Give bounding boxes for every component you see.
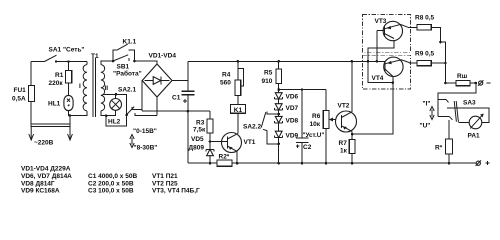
relay contact K1.1 bbox=[113, 39, 137, 62]
svg-text:VD8 Д814Г: VD8 Д814Г bbox=[21, 180, 55, 187]
transformer T1 primary winding I bbox=[69, 53, 99, 117]
svg-text:SA1 "Сеть": SA1 "Сеть" bbox=[49, 47, 85, 54]
meter mode legend I / U with double arrow bbox=[420, 101, 435, 130]
svg-text:HL2: HL2 bbox=[108, 119, 121, 126]
svg-text:VT1 П21: VT1 П21 bbox=[152, 173, 178, 180]
switch SA3 bbox=[447, 100, 476, 122]
resistor R2* inline bbox=[217, 154, 232, 167]
wire: mains left vertical from SA1 down to plug bbox=[30, 62, 32, 128]
multiplier resistor R* bbox=[435, 120, 452, 163]
svg-text:VD9 КС168А: VD9 КС168А bbox=[21, 188, 60, 195]
svg-text:SA2.2: SA2.2 bbox=[243, 124, 261, 131]
neon lamp HL1 bbox=[48, 95, 73, 115]
transformer T1 core bbox=[93, 58, 95, 118]
svg-text:VD6: VD6 bbox=[286, 94, 299, 101]
svg-text:R8 0,5: R8 0,5 bbox=[415, 15, 435, 22]
svg-text:560: 560 bbox=[220, 80, 231, 87]
svg-text:7,5к: 7,5к bbox=[193, 127, 206, 134]
capacitor C2 bbox=[296, 90, 312, 164]
resistor R3 bbox=[193, 111, 213, 143]
dashed box VT3 bbox=[363, 15, 411, 53]
switch SA1 "Сеть" bbox=[31, 47, 87, 63]
svg-text:SA3: SA3 bbox=[463, 100, 476, 107]
svg-text:R3: R3 bbox=[196, 120, 205, 127]
svg-text:"I": "I" bbox=[423, 101, 431, 108]
svg-text:R2*: R2* bbox=[219, 154, 230, 161]
svg-text:С2 200,0 х 50В: С2 200,0 х 50В bbox=[88, 180, 134, 187]
svg-text:SA2.1: SA2.1 bbox=[118, 87, 136, 94]
svg-text:VT2: VT2 bbox=[338, 103, 350, 110]
svg-text:VT2 П25: VT2 П25 bbox=[152, 180, 178, 187]
wire: reference node to R6 top bbox=[279, 88, 326, 91]
zener diode VD5 Д809 bbox=[189, 136, 215, 163]
svg-text:Rш: Rш bbox=[457, 73, 467, 80]
wire: bridge left vertex down to SA2.1 bbox=[141, 81, 143, 112]
svg-text:VT3: VT3 bbox=[375, 18, 387, 25]
svg-text:VD1-VD4 Д229А: VD1-VD4 Д229А bbox=[21, 166, 71, 173]
svg-text:"0-15В": "0-15В" bbox=[133, 128, 157, 135]
resistor R8 0,5 bbox=[415, 15, 445, 84]
wire: VT2 emitter output line to VT3/VT4 collectors bbox=[352, 39, 394, 135]
svg-text:II: II bbox=[105, 85, 109, 92]
svg-text:VT3, VT4 П4Б,Г: VT3, VT4 П4Б,Г bbox=[152, 188, 200, 195]
transformer T1 secondary winding II bbox=[101, 61, 116, 116]
svg-text:VD7: VD7 bbox=[286, 105, 299, 112]
meter PA1 bbox=[458, 114, 483, 140]
wire: base tie line VT3 to rail bbox=[376, 31, 378, 62]
svg-text:K1: K1 bbox=[234, 107, 243, 114]
svg-text:Д809: Д809 bbox=[189, 145, 205, 152]
label "Уст.U" bbox=[303, 132, 325, 139]
svg-text:10к: 10к bbox=[310, 121, 321, 128]
parts list column 3 bbox=[152, 173, 200, 195]
lamp HL2 bbox=[105, 93, 122, 126]
transistor VT2 bbox=[336, 61, 357, 134]
svg-text:HL1: HL1 bbox=[48, 101, 61, 108]
svg-text:SB1: SB1 bbox=[117, 64, 130, 71]
parts list column 2 bbox=[88, 173, 137, 195]
svg-text:"8-30В": "8-30В" bbox=[134, 145, 158, 152]
svg-text:R9 0,5: R9 0,5 bbox=[415, 51, 435, 58]
dashed box VT4 bbox=[363, 55, 411, 89]
zener diode VD6 bbox=[275, 90, 299, 101]
switch SA2.2 bbox=[243, 112, 279, 144]
svg-text:R4: R4 bbox=[222, 72, 231, 79]
push button SB1 "Работа" bbox=[112, 55, 142, 78]
svg-text:R*: R* bbox=[435, 145, 443, 152]
fuse FU1 bbox=[12, 86, 34, 103]
svg-text:PA1: PA1 bbox=[468, 133, 481, 140]
svg-text:910: 910 bbox=[262, 78, 273, 85]
svg-text:С1 4000,0 х 50В: С1 4000,0 х 50В bbox=[88, 173, 137, 180]
wire: bridge right vertex to C1 branch bbox=[172, 80, 188, 82]
svg-text:R1: R1 bbox=[55, 72, 64, 79]
zener diode VD7 bbox=[275, 99, 299, 112]
transistor VT1 bbox=[210, 133, 256, 164]
transistor VT4 bbox=[372, 57, 418, 82]
wire: node line y111 from SA2.1 column to R3 bbox=[142, 110, 210, 113]
svg-text:T1: T1 bbox=[91, 53, 99, 60]
svg-text:VD6, VD7 Д814А: VD6, VD7 Д814А bbox=[21, 173, 72, 180]
main positive top rail bbox=[188, 60, 385, 63]
svg-text:VD1-VD4: VD1-VD4 bbox=[149, 53, 177, 60]
wire: sense line from minus node to SA3 bbox=[438, 83, 476, 120]
wire: PA1 right to SA3 middle contact bbox=[454, 108, 490, 122]
svg-text:VD8: VD8 bbox=[286, 118, 299, 125]
svg-text:R6: R6 bbox=[312, 113, 321, 120]
svg-text:I: I bbox=[79, 83, 81, 90]
svg-text:С3 100,0 х 50В: С3 100,0 х 50В bbox=[88, 188, 134, 195]
resistor R7 bbox=[339, 133, 355, 163]
svg-text:"Уст.U": "Уст.U" bbox=[303, 132, 325, 139]
svg-text:FU1: FU1 bbox=[14, 87, 27, 94]
parts list column 1 bbox=[21, 166, 72, 195]
wire: bridge bottom vertex down bbox=[156, 97, 158, 116]
svg-text:R5: R5 bbox=[264, 70, 273, 77]
svg-text:220к: 220к bbox=[49, 80, 64, 87]
output terminal minus bbox=[478, 80, 491, 86]
svg-text:1к: 1к bbox=[340, 148, 348, 155]
resistor R5 bbox=[262, 61, 282, 91]
potentiometer R6 bbox=[310, 90, 342, 164]
output terminal plus bbox=[476, 160, 490, 166]
svg-text:"U": "U" bbox=[420, 123, 431, 130]
svg-text:C2: C2 bbox=[303, 144, 312, 151]
zener diode VD9 bbox=[275, 123, 299, 163]
resistor R9 0,5 bbox=[415, 51, 447, 66]
transistor VT3 bbox=[375, 18, 418, 41]
switch SA2.1 bbox=[106, 87, 157, 126]
resistor R1 bbox=[49, 60, 72, 96]
mains plug ~220В with two down arrows bbox=[29, 116, 73, 147]
svg-text:VD5: VD5 bbox=[191, 136, 204, 143]
svg-text:K1.1: K1.1 bbox=[123, 39, 137, 46]
capacitor C1 bbox=[172, 61, 194, 163]
svg-text:R7: R7 bbox=[339, 140, 348, 147]
zener diode VD8 bbox=[275, 110, 299, 124]
relay coil K1 bbox=[230, 105, 245, 134]
resistor R4 with tap bbox=[220, 61, 244, 104]
svg-text:0,5А: 0,5А bbox=[12, 96, 26, 103]
svg-text:VT4: VT4 bbox=[372, 75, 384, 82]
svg-text:~220В: ~220В bbox=[34, 140, 54, 147]
range legend 0-15В / 8-30В with double arrow bbox=[130, 128, 158, 152]
svg-text:VT1: VT1 bbox=[244, 139, 256, 146]
svg-text:"Работа": "Работа" bbox=[113, 70, 142, 78]
bridge rectifier VD1-VD4 bbox=[142, 53, 176, 98]
wire: SB1 node to bridge top bbox=[135, 61, 158, 64]
bottom common rail with inline R2* bbox=[188, 162, 476, 165]
shunt resistor Rш bbox=[444, 73, 477, 86]
svg-text:C1: C1 bbox=[172, 95, 181, 102]
